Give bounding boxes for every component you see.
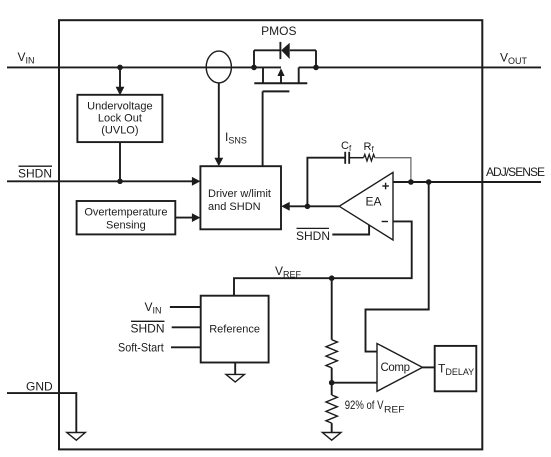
wire ADJ/SENSE rail (EA plus input) bbox=[393, 181, 541, 183]
svg-text:VIN: VIN bbox=[145, 300, 162, 316]
svg-text:Driver w/limit: Driver w/limit bbox=[208, 188, 271, 200]
label SHDN at EA (with overline) bbox=[296, 228, 330, 243]
node junction feedback on plus input bbox=[408, 179, 414, 185]
label VREF bbox=[275, 264, 302, 280]
current sense element (ellipse) bbox=[206, 51, 231, 83]
wire UVLO to SHDN rail bbox=[119, 142, 121, 181]
wire R2 to ground bbox=[331, 423, 333, 432]
ground at reference bbox=[226, 362, 244, 382]
PMOS body diode bbox=[280, 42, 289, 59]
svg-text:92% of V: 92% of V bbox=[345, 398, 384, 412]
svg-text:SHDN: SHDN bbox=[131, 322, 165, 336]
svg-text:ISNS: ISNS bbox=[225, 130, 247, 146]
svg-text:SHDN: SHDN bbox=[296, 229, 330, 243]
wire VIN to UVLO with arrow bbox=[116, 67, 125, 95]
svg-text:REF: REF bbox=[384, 404, 405, 415]
svg-text:EA: EA bbox=[366, 195, 382, 209]
node junction PMOS left bbox=[251, 65, 257, 71]
svg-text:Soft-Start: Soft-Start bbox=[118, 341, 164, 355]
node junction PMOS right bbox=[313, 65, 319, 71]
PMOS label bbox=[261, 24, 296, 38]
block UVLO (Undervoltage Lock Out) bbox=[77, 95, 162, 142]
wire reference VIN input bbox=[170, 306, 201, 308]
resistor R2 bbox=[326, 395, 337, 423]
label 92% of VREF bbox=[345, 398, 405, 415]
wire EA output to driver with arrow bbox=[281, 202, 339, 211]
wire PMOS gate to driver bbox=[262, 91, 264, 166]
resistor R1 bbox=[326, 340, 337, 368]
svg-text:VIN: VIN bbox=[18, 50, 35, 66]
svg-text:Undervoltage: Undervoltage bbox=[87, 101, 152, 113]
svg-text:Comp: Comp bbox=[381, 362, 411, 374]
ground at divider bbox=[322, 433, 341, 441]
wire EA minus input to VREF bbox=[234, 221, 412, 295]
pin label VIN bbox=[18, 50, 35, 66]
node junction comparator tap bbox=[426, 179, 432, 185]
wire overtemp to driver with arrow bbox=[175, 213, 200, 222]
wire Cf to Rf bbox=[350, 157, 364, 159]
block TDELAY bbox=[435, 346, 477, 391]
pin label ADJ/SENSE bbox=[486, 165, 545, 179]
wire R1 to mid node bbox=[331, 368, 333, 383]
svg-text:and SHDN: and SHDN bbox=[208, 201, 261, 213]
svg-text:GND: GND bbox=[26, 380, 53, 394]
svg-text:VREF: VREF bbox=[275, 264, 302, 280]
wire mid node to R2 bbox=[331, 383, 333, 395]
pin label VOUT bbox=[500, 51, 528, 67]
svg-text:ADJ/SENSE: ADJ/SENSE bbox=[486, 165, 545, 179]
PMOS body-diode rail bbox=[254, 50, 316, 67]
wire ISNS to driver with arrow bbox=[214, 83, 223, 166]
svg-text:Reference: Reference bbox=[209, 323, 260, 335]
outer IC boundary box bbox=[59, 20, 482, 449]
resistor Rf bbox=[364, 141, 375, 161]
node junction on SHDN rail bbox=[117, 179, 123, 185]
wire reference SHDN input bbox=[172, 326, 201, 328]
wire VIN rail bbox=[7, 66, 281, 68]
pin label SHDN (with overline) bbox=[18, 166, 52, 180]
wire Rf to EA plus node bbox=[375, 158, 411, 182]
comparator Comp bbox=[377, 344, 423, 392]
ground at GND pin bbox=[67, 433, 86, 441]
block Overtemperature Sensing bbox=[77, 201, 176, 234]
wire VREF node to R1 bbox=[331, 278, 333, 340]
label VIN at reference bbox=[145, 300, 162, 316]
block Reference bbox=[201, 296, 269, 363]
node junction divider mid bbox=[329, 380, 335, 386]
svg-text:Overtemperature: Overtemperature bbox=[84, 207, 167, 219]
wire feedback riser bbox=[307, 158, 344, 207]
svg-text:Sensing: Sensing bbox=[106, 220, 146, 232]
block Driver w/limit and SHDN bbox=[200, 166, 281, 229]
wire GND pin bbox=[7, 393, 76, 432]
wire mid node to comparator minus input bbox=[332, 382, 377, 384]
wire VOUT rail bbox=[299, 66, 541, 68]
svg-text:PMOS: PMOS bbox=[261, 24, 296, 38]
wire comparator tap to comp plus input bbox=[366, 182, 429, 352]
svg-text:Cf: Cf bbox=[341, 140, 352, 153]
label Soft-Start bbox=[118, 341, 164, 355]
transistor PMOS symbol bbox=[254, 67, 307, 91]
svg-text:SHDN: SHDN bbox=[18, 167, 52, 181]
pin label GND bbox=[26, 380, 53, 394]
node junction on VIN rail to UVLO bbox=[117, 65, 123, 71]
wire comp output to TDELAY bbox=[423, 366, 435, 368]
node junction VREF divider tap bbox=[329, 275, 335, 281]
wire reference Soft-Start input bbox=[171, 346, 201, 348]
wire SHDN to EA bbox=[332, 225, 369, 235]
svg-text:(UVLO): (UVLO) bbox=[101, 125, 138, 137]
capacitor Cf bbox=[341, 140, 352, 164]
svg-text:TDELAY: TDELAY bbox=[438, 362, 474, 378]
svg-text:Rf: Rf bbox=[364, 141, 375, 154]
label SHDN at reference (with overline) bbox=[131, 321, 165, 335]
wire SHDN rail with arrow into driver bbox=[7, 177, 200, 186]
node junction EA output feedback bbox=[305, 204, 311, 210]
svg-text:VOUT: VOUT bbox=[500, 51, 528, 67]
op-amp EA bbox=[339, 172, 393, 240]
label ISNS bbox=[225, 130, 247, 146]
svg-text:Lock Out: Lock Out bbox=[98, 113, 142, 125]
